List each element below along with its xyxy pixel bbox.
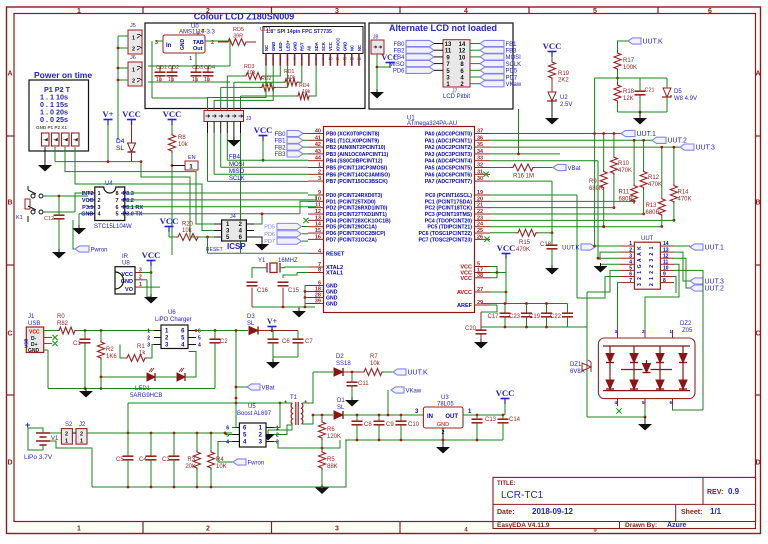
svg-text:PB0 (XCK0T0PCINT8): PB0 (XCK0T0PCINT8) [326, 132, 380, 138]
svg-text:PB3 (AIN1OC0APCINT11): PB3 (AIN1OC0APCINT11) [326, 152, 389, 158]
svg-text:1: 1 [265, 57, 267, 61]
svg-text:D5: D5 [674, 89, 682, 95]
svg-text:GND: GND [437, 422, 449, 428]
svg-text:J4: J4 [230, 214, 236, 220]
svg-text:Out: Out [193, 46, 203, 52]
svg-text:0.9: 0.9 [728, 487, 740, 496]
svg-text:PA1 (ADC1PCINT1): PA1 (ADC1PCINT1) [425, 138, 472, 144]
svg-text:PB5 (PCINT13ICP3MOSI): PB5 (PCINT13ICP3MOSI) [326, 166, 387, 172]
svg-text:C3: C3 [162, 457, 170, 463]
svg-text:25: 25 [477, 228, 483, 234]
svg-text:9: 9 [318, 190, 321, 196]
svg-text:26: 26 [477, 234, 483, 240]
svg-text:UUT.2: UUT.2 [668, 138, 688, 145]
svg-text:Drawn By:: Drawn By: [625, 522, 657, 529]
svg-text:PD5: PD5 [264, 225, 275, 231]
svg-text:34: 34 [477, 149, 484, 155]
svg-text:A: A [755, 71, 760, 78]
svg-text:P3.1 RX: P3.1 RX [123, 205, 144, 211]
svg-text:680R: 680R [589, 186, 604, 192]
svg-text:LCR-TC1: LCR-TC1 [501, 490, 544, 501]
svg-text:11: 11 [315, 203, 321, 209]
svg-text:VCC: VCC [496, 388, 515, 398]
svg-text:RD5: RD5 [233, 27, 244, 33]
svg-text:12: 12 [343, 57, 347, 61]
svg-text:2: 2 [276, 433, 279, 439]
svg-text:32: 32 [477, 163, 483, 169]
svg-text:14: 14 [315, 222, 322, 228]
svg-text:FB0: FB0 [274, 132, 286, 138]
svg-text:LED-: LED- [278, 41, 283, 51]
svg-text:41: 41 [315, 135, 321, 141]
svg-text:6: 6 [115, 205, 118, 211]
svg-text:C23: C23 [509, 314, 521, 320]
svg-text:2: 2 [272, 57, 274, 61]
svg-text:GND: GND [342, 42, 347, 51]
svg-text:VCC: VCC [163, 109, 182, 119]
svg-text:35: 35 [477, 142, 483, 148]
svg-text:UUT.3: UUT.3 [696, 144, 716, 151]
svg-text:2.5V: 2.5V [560, 102, 572, 108]
svg-text:PD6: PD6 [264, 232, 275, 238]
svg-text:470K: 470K [516, 247, 530, 253]
svg-text:K: K [637, 246, 643, 250]
svg-text:PD6 (PCINT30OC2BICP): PD6 (PCINT30OC2BICP) [326, 231, 386, 237]
svg-text:10k: 10k [370, 361, 381, 367]
svg-text:MISO: MISO [389, 62, 405, 68]
svg-text:D4: D4 [116, 138, 125, 145]
svg-text:9: 9 [663, 272, 666, 278]
svg-text:R12: R12 [648, 175, 660, 181]
svg-text:J6: J6 [130, 55, 136, 61]
svg-text:Y1: Y1 [258, 258, 266, 264]
svg-text:UUT.K: UUT.K [562, 245, 579, 251]
svg-text:V+: V+ [102, 109, 113, 119]
svg-text:PD5 (PCINT29OC1A): PD5 (PCINT29OC1A) [326, 225, 377, 231]
svg-text:LiPo 3.7V: LiPo 3.7V [24, 454, 53, 461]
svg-text:5ARG9HCB: 5ARG9HCB [130, 393, 162, 399]
svg-text:R8: R8 [178, 135, 186, 141]
svg-text:VCC: VCC [497, 243, 516, 253]
svg-text:36: 36 [477, 135, 483, 141]
svg-text:Power on time: Power on time [34, 70, 92, 80]
svg-text:2: 2 [80, 432, 83, 438]
svg-text:VCC: VCC [29, 330, 40, 336]
svg-text:14: 14 [357, 57, 361, 61]
svg-text:T1: T1 [290, 395, 298, 401]
svg-text:C12: C12 [44, 216, 54, 222]
svg-text:REV:: REV: [707, 489, 723, 496]
svg-text:C4: C4 [139, 457, 147, 463]
svg-text:120K: 120K [327, 434, 341, 440]
svg-text:2: 2 [98, 198, 101, 204]
svg-text:EN: EN [188, 155, 196, 161]
svg-text:PA2 (ADC2PCINT2): PA2 (ADC2PCINT2) [425, 145, 472, 151]
svg-text:FB4: FB4 [393, 55, 405, 61]
svg-text:LiPO Charger: LiPO Charger [155, 317, 192, 323]
svg-text:C14: C14 [509, 417, 521, 423]
svg-text:1: 1 [77, 8, 81, 15]
svg-text:VCC: VCC [160, 216, 179, 226]
svg-text:NC: NC [357, 45, 362, 51]
svg-text:6: 6 [198, 329, 201, 335]
svg-text:3: 3 [98, 205, 101, 211]
svg-text:RESET: RESET [206, 247, 223, 253]
svg-text:6: 6 [629, 272, 632, 278]
svg-text:P3.5: P3.5 [82, 205, 93, 211]
svg-text:4: 4 [629, 260, 632, 266]
svg-text:LCD Pitbit: LCD Pitbit [443, 94, 470, 100]
svg-text:30: 30 [477, 176, 483, 182]
svg-text:MOSI: MOSI [506, 55, 522, 61]
svg-text:R0: R0 [57, 314, 65, 320]
svg-text:A: A [637, 258, 643, 262]
svg-text:SCLK: SCLK [506, 62, 522, 68]
svg-text:PC7 (TOSC2PCINT23): PC7 (TOSC2PCINT23) [418, 237, 472, 243]
svg-text:14: 14 [663, 241, 669, 247]
svg-text:G: G [637, 264, 643, 268]
svg-text:PD7 (PCINT31OC2A): PD7 (PCINT31OC2A) [326, 237, 377, 243]
svg-text:R7: R7 [370, 354, 378, 360]
svg-text:13: 13 [663, 247, 669, 253]
svg-text:USB: USB [28, 321, 40, 327]
svg-text:5: 5 [294, 57, 296, 61]
svg-text:GND: GND [326, 302, 338, 308]
svg-text:PA0 (ADC0PCINT0): PA0 (ADC0PCINT0) [425, 132, 472, 138]
svg-text:1: 1 [139, 282, 142, 288]
svg-text:8: 8 [315, 57, 317, 61]
svg-text:PC2 (PCINT18TCK): PC2 (PCINT18TCK) [425, 206, 472, 212]
svg-text:9: 9 [322, 57, 324, 61]
svg-text:C16: C16 [257, 288, 269, 294]
svg-text:EasyEDA V4.11.9: EasyEDA V4.11.9 [497, 522, 550, 529]
svg-text:C17: C17 [488, 314, 500, 320]
svg-text:U3: U3 [441, 395, 449, 401]
svg-text:PD4 (PCINT28XCK1OC1B): PD4 (PCINT28XCK1OC1B) [326, 218, 391, 224]
svg-text:R1: R1 [137, 344, 145, 350]
svg-text:PD2 (PCINT26RXD1INT0): PD2 (PCINT26RXD1INT0) [326, 206, 388, 212]
svg-text:2: 2 [637, 277, 643, 280]
svg-text:2: 2 [629, 247, 632, 253]
svg-text:GND: GND [292, 42, 297, 51]
svg-text:In: In [166, 43, 172, 49]
svg-text:NC: NC [264, 45, 269, 51]
svg-text:VO: VO [125, 287, 134, 293]
svg-text:SS18: SS18 [336, 361, 351, 367]
svg-text:C6: C6 [282, 339, 290, 345]
svg-text:OUT: OUT [445, 414, 458, 420]
svg-text:PD7: PD7 [264, 239, 275, 245]
svg-text:R10: R10 [618, 161, 630, 167]
svg-text:Sheet:: Sheet: [681, 509, 702, 516]
svg-text:UUT.K: UUT.K [408, 369, 429, 376]
svg-text:P3.2: P3.2 [123, 198, 134, 204]
svg-text:PC1 (PCINT17SDA): PC1 (PCINT17SDA) [425, 199, 473, 205]
svg-text:14: 14 [459, 42, 466, 48]
svg-text:40: 40 [315, 129, 321, 135]
svg-text:PD1 (PCINT25TXD0): PD1 (PCINT25TXD0) [326, 199, 376, 205]
svg-text:6: 6 [301, 57, 303, 61]
svg-text:IR: IR [122, 254, 129, 260]
svg-text:5: 5 [198, 336, 201, 342]
svg-text:1: 1 [132, 36, 135, 42]
svg-text:R3: R3 [187, 457, 195, 463]
svg-text:D: D [7, 460, 12, 467]
svg-text:11: 11 [663, 260, 669, 266]
svg-text:1.8" SPI 14pin FPC ST7735: 1.8" SPI 14pin FPC ST7735 [266, 29, 332, 35]
svg-text:V+: V+ [267, 317, 278, 326]
svg-text:4: 4 [286, 57, 288, 61]
svg-text:R15: R15 [519, 240, 531, 246]
svg-text:11: 11 [336, 57, 340, 61]
svg-text:VCC: VCC [82, 198, 94, 204]
svg-text:2: 2 [206, 526, 210, 533]
svg-text:U5: U5 [248, 404, 256, 410]
svg-text:FB1: FB1 [506, 42, 518, 48]
svg-text:C9: C9 [386, 422, 394, 428]
svg-text:1: 1 [637, 271, 643, 274]
svg-text:B: B [755, 200, 760, 207]
svg-text:R5: R5 [327, 457, 335, 463]
svg-text:SL: SL [337, 405, 345, 411]
svg-text:PD6: PD6 [393, 69, 405, 75]
svg-text:VCC: VCC [254, 125, 273, 135]
svg-text:UUT.2: UUT.2 [705, 285, 725, 292]
svg-text:C21: C21 [645, 88, 655, 94]
svg-text:R20: R20 [182, 222, 194, 228]
svg-text:2: 2 [139, 275, 142, 281]
svg-text:U6: U6 [168, 310, 176, 316]
svg-text:2: 2 [649, 265, 655, 268]
svg-text:5: 5 [115, 212, 118, 218]
svg-text:PD3 (PCINT27TXD1INT1): PD3 (PCINT27TXD1INT1) [326, 212, 387, 218]
svg-text:D: D [755, 460, 760, 467]
svg-text:31: 31 [477, 169, 483, 175]
svg-text:C5: C5 [116, 457, 124, 463]
svg-text:27: 27 [477, 287, 483, 293]
svg-text:19: 19 [477, 190, 483, 196]
svg-text:PA3 (ADC3PCINT3): PA3 (ADC3PCINT3) [425, 152, 472, 158]
svg-text:16: 16 [315, 234, 321, 240]
svg-text:D3: D3 [247, 314, 255, 320]
svg-text:470K: 470K [618, 168, 632, 174]
svg-text:D1: D1 [337, 398, 345, 404]
svg-text:2: 2 [649, 283, 655, 286]
svg-text:AREF: AREF [457, 303, 473, 309]
svg-text:PC3 (PCINT19TMS): PC3 (PCINT19TMS) [425, 212, 473, 218]
svg-text:1: 1 [629, 241, 632, 247]
svg-text:XTAL1: XTAL1 [326, 271, 343, 277]
svg-text:20K: 20K [185, 464, 196, 470]
svg-text:B: B [7, 200, 12, 207]
svg-text:IN: IN [427, 414, 433, 420]
svg-text:LED+: LED+ [285, 40, 290, 51]
svg-text:U2: U2 [560, 95, 568, 101]
svg-text:12: 12 [315, 209, 321, 215]
svg-text:C7: C7 [305, 339, 313, 345]
svg-text:8: 8 [663, 278, 666, 284]
svg-text:C2: C2 [220, 339, 228, 345]
svg-text:FB3: FB3 [274, 152, 286, 158]
svg-text:GND P1 P2 X1: GND P1 P2 X1 [36, 125, 67, 130]
svg-text:Colour LCD Z180SN009: Colour LCD Z180SN009 [194, 12, 295, 22]
svg-text:AVCC: AVCC [457, 290, 472, 296]
svg-text:PB1 (T1CLK0PCINT9): PB1 (T1CLK0PCINT9) [326, 138, 379, 144]
svg-text:3: 3 [279, 57, 281, 61]
svg-text:P3.3: P3.3 [123, 191, 134, 197]
svg-text:C: C [755, 331, 760, 338]
svg-text:470K: 470K [648, 182, 662, 188]
svg-text:PA7 (ADC7PCINT7): PA7 (ADC7PCINT7) [425, 179, 472, 185]
svg-text:5: 5 [226, 433, 229, 439]
svg-text:VKaw: VKaw [506, 82, 522, 88]
svg-text:8: 8 [318, 268, 321, 274]
svg-text:UUT.3: UUT.3 [705, 278, 725, 285]
svg-text:7: 7 [308, 57, 310, 61]
svg-text:13: 13 [350, 57, 354, 61]
svg-text:16MHZ: 16MHZ [278, 258, 298, 264]
svg-text:D2: D2 [336, 354, 344, 360]
svg-text:1: 1 [318, 163, 321, 169]
svg-text:W8 4.9V: W8 4.9V [674, 96, 697, 102]
svg-text:1: 1 [80, 439, 83, 445]
svg-text:GND: GND [81, 212, 93, 218]
svg-text:U4: U4 [105, 181, 113, 187]
svg-text:PC4 (TDOPCINT20): PC4 (TDOPCINT20) [425, 218, 473, 224]
svg-text:13: 13 [445, 42, 452, 48]
svg-text:42: 42 [315, 142, 321, 148]
svg-text:Alternate LCD not loaded: Alternate LCD not loaded [389, 23, 497, 33]
svg-text:2: 2 [649, 252, 655, 255]
svg-text:IOVCC: IOVCC [335, 38, 340, 51]
svg-text:UUT.1: UUT.1 [637, 131, 657, 138]
svg-text:1: 1 [147, 329, 150, 335]
svg-text:STC15L104W: STC15L104W [94, 224, 132, 230]
svg-text:10: 10 [459, 55, 466, 61]
svg-text:3: 3 [318, 176, 321, 182]
svg-text:12K: 12K [623, 96, 634, 102]
svg-text:U8: U8 [122, 261, 130, 267]
svg-text:Z05: Z05 [682, 328, 693, 334]
svg-text:10K: 10K [216, 464, 227, 470]
svg-text:20: 20 [477, 196, 483, 202]
svg-text:PD0 (PCINT24RXD0T3): PD0 (PCINT24RXD0T3) [326, 193, 382, 199]
svg-text:PD5: PD5 [506, 69, 518, 75]
svg-text:23: 23 [477, 215, 483, 221]
svg-text:PB7 (PCINT15OC3BSCK): PB7 (PCINT15OC3BSCK) [326, 179, 388, 185]
svg-text:FB3: FB3 [506, 49, 518, 55]
svg-text:39: 39 [315, 299, 321, 305]
svg-text:RESET: RESET [326, 251, 345, 257]
svg-text:Azure: Azure [667, 522, 687, 529]
svg-text:3: 3 [649, 259, 655, 262]
svg-text:2: 2 [132, 79, 135, 85]
svg-text:VCC: VCC [460, 276, 472, 282]
svg-text:470K: 470K [678, 197, 692, 203]
svg-text:2: 2 [65, 432, 68, 438]
svg-text:PB6 (PCINT14OC3AMISO): PB6 (PCINT14OC3AMISO) [326, 172, 390, 178]
svg-text:TITLE:: TITLE: [497, 481, 516, 487]
svg-text:38: 38 [477, 273, 483, 279]
svg-text:37: 37 [477, 129, 483, 135]
svg-text:FB1: FB1 [274, 139, 286, 145]
svg-text:C20: C20 [465, 326, 477, 332]
svg-text:44: 44 [315, 156, 322, 162]
svg-text:PC5 (TDIPCINT21): PC5 (TDIPCINT21) [427, 225, 472, 231]
svg-text:C: C [7, 331, 12, 338]
svg-text:C10: C10 [408, 422, 420, 428]
svg-text:3: 3 [637, 283, 643, 286]
svg-text:1: 1 [649, 277, 655, 280]
svg-text:5: 5 [629, 266, 632, 272]
svg-text:GND: GND [180, 39, 186, 51]
svg-text:VBat: VBat [568, 166, 581, 172]
svg-text:Fwron: Fwron [248, 460, 265, 466]
svg-text:6: 6 [226, 426, 229, 432]
svg-text:RST: RST [300, 42, 305, 51]
svg-text:1/1: 1/1 [710, 507, 722, 516]
svg-text:R11: R11 [619, 190, 630, 196]
svg-text:R14: R14 [678, 190, 690, 196]
svg-text:GND: GND [121, 279, 133, 285]
svg-text:4: 4 [464, 8, 468, 15]
svg-text:Pwron: Pwron [91, 247, 108, 253]
svg-text:11: 11 [445, 49, 452, 55]
svg-text:FB2: FB2 [393, 49, 405, 55]
svg-text:2K2: 2K2 [558, 78, 569, 84]
svg-text:A: A [637, 252, 643, 256]
svg-text:10: 10 [663, 266, 669, 272]
svg-text:VCC: VCC [142, 250, 161, 260]
svg-text:88K: 88K [327, 464, 338, 470]
svg-text:A0: A0 [307, 45, 312, 51]
svg-text:10k: 10k [182, 228, 193, 234]
svg-text:7: 7 [115, 198, 118, 204]
svg-text:VBat: VBat [262, 385, 275, 391]
svg-text:5: 5 [593, 8, 597, 15]
svg-text:0 . 0 25s: 0 . 0 25s [40, 115, 68, 124]
svg-text:S2: S2 [65, 422, 73, 428]
svg-text:UUT: UUT [641, 236, 654, 242]
svg-text:6: 6 [708, 8, 712, 15]
svg-text:3: 3 [629, 253, 632, 259]
svg-text:C11: C11 [358, 381, 369, 387]
svg-text:FB0: FB0 [393, 42, 405, 48]
svg-text:PB2 (AIN0INT2PCINT10): PB2 (AIN0INT2PCINT10) [326, 145, 386, 151]
svg-text:Date:: Date: [497, 509, 515, 516]
svg-text:2: 2 [132, 47, 135, 53]
svg-text:1: 1 [132, 68, 135, 74]
svg-text:1K6: 1K6 [106, 354, 117, 360]
svg-text:1: 1 [77, 526, 81, 533]
svg-text:SCK: SCK [321, 42, 326, 51]
svg-text:7: 7 [629, 278, 632, 284]
svg-text:2: 2 [649, 271, 655, 274]
svg-text:R17: R17 [623, 58, 635, 64]
svg-text:3: 3 [147, 343, 150, 349]
svg-text:USB: USB [24, 338, 29, 348]
svg-text:PD7: PD7 [506, 75, 518, 81]
svg-text:VCC: VCC [121, 272, 133, 278]
svg-text:C22: C22 [550, 314, 562, 320]
svg-text:12: 12 [663, 253, 669, 259]
svg-text:R18: R18 [623, 89, 635, 95]
svg-text:Boost AL697: Boost AL697 [237, 411, 272, 417]
svg-text:R6: R6 [327, 427, 335, 433]
svg-text:R82: R82 [57, 321, 69, 327]
svg-text:15: 15 [315, 228, 321, 234]
svg-text:ICSP: ICSP [227, 242, 246, 251]
